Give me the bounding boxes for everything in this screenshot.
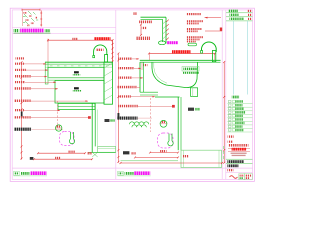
strip header row 2 [230,14,239,16]
left title green text [21,172,30,175]
left counter apron band [45,64,112,67]
right vertical dimension dark label [117,113,120,119]
supply wall vertical [162,19,164,42]
strip margin vertical green marks [223,146,225,159]
right faucet spout arc [202,42,217,52]
legend row 7 [227,122,252,125]
left faucet spout tip [93,56,95,58]
legend row 5 [227,115,252,118]
left leader label row 1 [16,57,25,59]
legend title [232,96,240,99]
right detail callout dashed magenta [158,133,174,148]
node detail sketch hatch strokes [24,11,36,25]
left cabinet shelf band [48,78,104,81]
right leader label row 1 [118,58,132,60]
supply note red text 2 [136,37,150,40]
legend row 8 [227,125,252,128]
notes column row 4 [186,36,203,38]
left vertical dimension chain [21,62,23,159]
right title underline [118,175,151,177]
basin inner rim line [154,62,167,83]
right counter top [140,59,221,61]
right cell corner note [133,12,137,15]
left floor box [98,146,116,152]
basin bowl profile [152,62,198,87]
basin tag box [182,67,199,71]
right bottom dimension line 3 [121,162,223,164]
support step band [140,91,158,93]
counter support left wall [139,62,141,92]
left trap inside callout [69,132,74,144]
right leader label row 5 [118,95,131,97]
supply note red text [139,21,152,24]
legend row 6 [227,118,252,121]
left cabinet box 2 label [74,87,79,89]
right trap inside callout [168,134,173,146]
left faucet label WC [97,49,104,51]
left right-side stacked dimension line [112,40,114,62]
left title underline [14,175,47,177]
strip header row 3 [230,18,245,20]
left leader label row 3 [15,69,26,71]
notes column row 2 [186,20,203,22]
basin tag subtext [183,72,199,74]
left cabinet toe kick [58,103,95,109]
right leader label row 7 black [117,117,138,120]
cell divider drawing/title strip [221,10,223,180]
legend row 9 [227,129,252,132]
left leader label row 7 [14,100,31,103]
right leader label row 3 [118,77,132,79]
supply wall red ticks [166,20,169,40]
cell divider between drawings [115,10,117,180]
notes leader 1 [205,17,222,19]
right bottom dimension line 1 [150,152,178,154]
bottom title band rule [12,167,252,169]
basin left small dim [141,63,143,71]
right bottom green rule [121,160,179,162]
company name line [228,144,248,147]
right symbol circle [160,120,167,127]
node detail sketch top dimension [22,9,40,11]
left room label [105,119,110,122]
outer border frame [10,8,254,181]
left lower wall [91,103,93,152]
stamp row signature scribble [230,176,238,179]
right bottom dimension line 2 [135,156,178,158]
right title green text [125,172,134,175]
node detail title underline [14,32,51,34]
right bottom dark note [123,151,129,154]
inner border frame [12,10,252,180]
sheet name dark [227,164,238,167]
left top dimension line [48,39,113,41]
left bottom dark note [30,157,34,160]
notes green tag [188,43,197,46]
left detail callout dashed magenta [60,132,75,146]
right leader label row 6 [118,105,138,108]
left symbol circle [56,125,62,131]
left cabinet box 1 label [74,71,79,73]
left title magenta text [30,171,46,175]
supply vertical dimension [140,25,142,36]
right top dimension line [149,52,215,54]
right vertical dimension chain right [223,62,225,163]
notes column row 3 [186,28,202,30]
left faucet body [105,55,108,63]
legend row 1 [227,100,252,103]
left bottom dimension line 1 [38,152,85,154]
supply wall horizontal top [141,16,167,18]
left leader label row 2 [15,63,24,65]
right title scale box [118,171,124,175]
left floor line [88,151,116,153]
top-left detail cell title rule upper [12,27,116,29]
project name dark [227,160,244,163]
right floor box [181,150,222,167]
sheet number red [227,169,233,171]
top-left detail cell bottom rule [12,33,116,35]
strip header row 1 [228,10,238,13]
title strip inner divider [225,10,227,180]
left wall column with hatch [104,62,113,104]
right title magenta text [134,171,150,175]
strip rule [226,158,252,160]
left cabinet left gable [45,62,48,84]
right scallop break symbol [130,122,149,124]
left vertical dimension text dark [20,112,23,118]
legend footnote [228,135,234,137]
water point magenta tag [167,41,178,44]
stamp cell 1 [239,174,245,180]
basin drain trap [191,88,198,97]
right lower wall [177,97,179,150]
water point ellipse [158,41,165,45]
company address lines [231,153,247,154]
company logo band [228,147,250,149]
support step band 2 [155,96,180,98]
left leader label row 8 [15,109,24,111]
right top red label block [172,50,191,53]
right top dim extension lines [149,53,151,60]
left top red label block [94,37,111,40]
node detail title text magenta [20,29,44,33]
left leader label row 4 [15,75,31,78]
right centerline dashed [150,98,152,132]
node detail sketch green ticks [23,17,38,23]
left leader label row 10 black [14,128,32,131]
left top dim extension lines [47,40,49,62]
left bottom dimension line 2 [34,158,92,160]
left faucet spout arc [94,45,107,56]
node detail sketch right dimension [40,11,42,27]
right vertical dimension chain left [117,53,119,162]
legend row 3 [227,108,252,111]
right faucet body [212,51,215,62]
left centerline dashed [57,101,59,125]
node detail sketch left edge [21,11,23,27]
node detail title scale text green [14,29,20,32]
right leader label row 2 [118,67,134,69]
company copyright note [228,141,233,143]
right faucet spout tip [201,51,203,54]
notes leader 2 [205,30,222,32]
left title scale box [14,171,20,175]
right leader label row 4 [117,86,137,89]
strip empty table columns [233,21,235,95]
right room label [188,108,194,111]
notes column row 1 [186,13,201,15]
node detail title suffix green [45,29,50,32]
left cabinet box 1 [48,67,104,77]
left leader label row 9 [14,116,31,118]
left wall base diagonal [92,152,97,157]
stamp cell 2 [245,174,253,180]
node detail sketch red annotations [24,12,27,14]
left leader label row 5 [15,81,25,83]
left cabinet box 2 [55,81,104,104]
legend row 2 [227,104,252,107]
legend row 4 [227,111,252,114]
left counter top [45,61,113,63]
left leader label row 6 [14,87,31,90]
left top dimension number [72,38,78,40]
